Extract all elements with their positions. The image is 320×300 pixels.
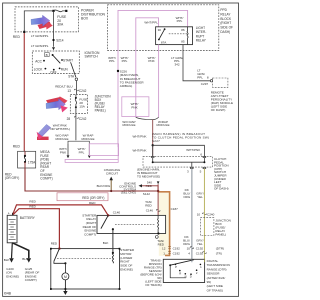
W/O RAP MODULE label (merge) <box>122 120 135 127</box>
charging circuit arrow <box>109 177 113 181</box>
DK BLU/ORG label 2 <box>183 235 191 246</box>
WHT/PNK label above merge <box>131 102 139 110</box>
svg-text:OFF: OFF <box>50 70 56 74</box>
interrupt relay box <box>156 27 193 45</box>
svg-text:PPL: PPL <box>177 19 183 23</box>
svg-text:RELAY: RELAY <box>196 39 207 43</box>
svg-text:PANEL): PANEL) <box>215 232 226 236</box>
svg-text:LT GRN/PPL: LT GRN/PPL <box>31 34 49 38</box>
STARTER RELAY label <box>82 213 97 236</box>
svg-text:BLK: BLK <box>103 241 109 245</box>
S227 splice note <box>152 132 209 143</box>
svg-text:RED (OR GRY): RED (OR GRY) <box>82 196 104 200</box>
junction dot PDB bottom <box>23 31 25 33</box>
svg-text:RED: RED <box>13 144 21 148</box>
svg-text:10: 10 <box>187 246 191 250</box>
svg-text:MODULE: MODULE <box>81 137 94 141</box>
wire: PDB feed L-run <box>24 11 53 32</box>
battery ground wire 2 <box>12 243 29 258</box>
motor M <box>62 273 69 280</box>
svg-text:C140: C140 <box>113 211 121 215</box>
pink highlight box lower <box>89 144 118 156</box>
wire GRY/YEL <box>203 169 205 259</box>
POWER DISTRIBUTION BOX label <box>81 8 105 20</box>
G100 label <box>6 267 19 279</box>
engine controls arrow <box>139 184 143 187</box>
node S214 <box>53 39 64 43</box>
svg-text:AIRBAG): AIRBAG) <box>120 84 133 88</box>
starter motor box <box>51 249 120 289</box>
svg-text:PPL: PPL <box>79 150 85 154</box>
WHT/PPL label <box>78 147 86 155</box>
W/ RAP MODULE label (left split) <box>81 133 94 141</box>
svg-text:S142: S142 <box>143 192 150 196</box>
svg-text:RED: RED <box>29 200 36 204</box>
ground G100 <box>9 258 14 262</box>
connector C297 <box>201 80 213 86</box>
starter relay actuator dashed <box>115 223 156 225</box>
S226 splice note <box>120 70 145 88</box>
svg-text:R: R <box>179 271 181 275</box>
svg-text:PNK: PNK <box>148 59 154 63</box>
arrow into ignition switch <box>52 47 55 50</box>
svg-text:C240: C240 <box>207 212 215 216</box>
motor feed dot <box>64 262 66 264</box>
starter relay contact <box>101 214 114 230</box>
svg-text:C242: C242 <box>79 117 87 121</box>
RED (OR GRY) boxed label <box>57 193 108 201</box>
split bracket <box>68 141 89 143</box>
solenoid coil <box>112 253 113 263</box>
pink highlight box upper <box>122 97 149 117</box>
TR sensor label <box>140 258 162 287</box>
svg-text:RUN: RUN <box>61 68 69 72</box>
svg-text:(S&L CNG): (S&L CNG) <box>121 190 136 194</box>
svg-text:D: D <box>190 274 192 278</box>
svg-text:86: 86 <box>181 28 185 32</box>
svg-text:STA: STA <box>68 75 75 79</box>
GRY/YEL label 2 <box>196 238 204 246</box>
MEGA FUSE (PDB) label <box>40 150 52 181</box>
svg-text:30A: 30A <box>57 23 64 27</box>
relay block dashed box <box>108 5 219 51</box>
wire 540 RED continuation stub <box>157 181 160 191</box>
540 RED label <box>146 180 153 188</box>
PPD RELAY BLOCK label <box>220 8 233 34</box>
svg-text:PNK: PNK <box>60 150 66 154</box>
coil return connector <box>155 236 158 239</box>
ENGINE CONTROLS SYSTEM label <box>119 181 136 194</box>
fuse 15A <box>75 94 77 113</box>
CPP jumper connectors top <box>151 156 206 158</box>
svg-text:C146: C146 <box>146 209 154 213</box>
CHARGING CIRCUIT label <box>104 168 121 176</box>
svg-text:1: 1 <box>163 251 165 255</box>
svg-text:C242: C242 <box>79 89 87 93</box>
motor ground <box>63 291 67 295</box>
wire below C242 <box>75 113 77 140</box>
svg-text:C192: C192 <box>173 251 181 255</box>
ignition switch box (dashed) <box>32 51 79 74</box>
svg-text:85: 85 <box>181 40 185 44</box>
connector 13 C242 <box>67 89 86 93</box>
connector ticks C192 <box>190 247 206 254</box>
arrow end WHT/PNK <box>67 155 70 158</box>
pink wire outer run <box>118 10 188 147</box>
LIGHT INTERRUPT RELAY label <box>196 26 207 43</box>
connector marks on TAN/RED at C192 <box>168 247 171 254</box>
svg-text:PPL: PPL <box>109 59 115 63</box>
W/RAP MODULE label (merge) <box>156 120 169 127</box>
node S227 <box>152 144 154 146</box>
svg-text:+: + <box>8 212 10 216</box>
orange highlight strip fill <box>159 192 170 256</box>
svg-text:START: START <box>63 59 73 63</box>
TAN/RED label bottom <box>157 239 165 247</box>
pink highlight strip <box>65 159 118 162</box>
JUNCTION BOX label 2 <box>215 218 230 236</box>
IGNITION SWITCH label <box>85 51 100 59</box>
node S142 <box>157 190 159 192</box>
orange highlight border <box>158 192 169 256</box>
connector 10 C240 <box>197 212 215 216</box>
ENGINE HARN breakout note <box>137 167 160 178</box>
svg-text:SWITCH: SWITCH <box>85 55 99 59</box>
svg-text:(OR GRY): (OR GRY) <box>5 176 19 180</box>
svg-text:WHT/PPL: WHT/PPL <box>144 21 158 25</box>
svg-text:TO MEGAFUSE): TO MEGAFUSE) <box>137 175 160 179</box>
starter solenoid contact <box>54 247 66 263</box>
svg-text:28: 28 <box>67 117 71 121</box>
svg-text:MODULE: MODULE <box>122 123 135 127</box>
TR sensor box <box>163 259 204 282</box>
svg-text:6: 6 <box>200 153 202 157</box>
border frame <box>3 3 239 296</box>
svg-text:RED/LT BLU: RED/LT BLU <box>55 84 72 88</box>
STA terminal <box>68 75 78 81</box>
wire WHT/PNK drop <box>67 144 69 156</box>
power distribution box (dashed) <box>15 7 79 32</box>
svg-text:MODULE: MODULE <box>156 123 169 127</box>
svg-text:COMPT): COMPT) <box>84 232 96 236</box>
FUSE 28 15A label <box>79 97 87 108</box>
svg-text:C187: C187 <box>171 207 179 211</box>
svg-text:PPL: PPL <box>197 75 203 79</box>
battery ground wire 1 <box>11 243 14 258</box>
svg-text:TO CLUTCH PEDAL POSITION SW): TO CLUTCH PEDAL POSITION SW) <box>152 135 209 139</box>
wire: mega fuse to B+ bus <box>25 168 158 191</box>
WHT/PPL label (wire 1) <box>108 56 116 63</box>
svg-text:M: M <box>64 275 67 279</box>
svg-text:C297: C297 <box>201 82 209 86</box>
relay internals <box>158 27 189 45</box>
svg-text:N: N <box>185 274 187 278</box>
svg-text:OF DASH): OF DASH) <box>211 108 226 112</box>
node S226 <box>117 70 119 72</box>
svg-text:RED: RED <box>13 35 21 39</box>
svg-text:COMPT): COMPT) <box>25 278 37 282</box>
svg-text:(TR): (TR) <box>216 251 222 255</box>
svg-text:342: 342 <box>174 63 179 67</box>
svg-text:WHT/PNK: WHT/PNK <box>186 148 200 152</box>
starter relay coil <box>158 215 159 233</box>
mega fuse box <box>18 151 36 168</box>
TR sensor internals <box>169 259 204 278</box>
LT GRN/PPL 8 label <box>197 69 209 80</box>
WHT/PPL label above pin 86 <box>176 16 184 23</box>
svg-text:PPD: PPD <box>220 8 227 12</box>
connector 28 C242 <box>67 117 87 122</box>
svg-text:C192: C192 <box>196 246 204 250</box>
connector C146 <box>146 207 178 213</box>
WHT/PNK label (wire 3) <box>148 56 156 63</box>
svg-text:S214: S214 <box>56 39 64 43</box>
wire WHT/PNK to CPP jumper pin 6 <box>153 145 205 156</box>
svg-text:4: 4 <box>188 251 190 255</box>
WHT/PNK OR WHT/PPL label <box>50 124 70 132</box>
STARTER MOTOR label <box>120 248 135 272</box>
CPP switch label <box>214 157 229 191</box>
RED (OR GRY) label left <box>5 172 19 180</box>
G125 label <box>25 267 40 282</box>
wire WHT/PPL drop <box>88 144 90 156</box>
svg-text:PANEL): PANEL) <box>95 108 106 112</box>
svg-text:RED: RED <box>29 205 36 209</box>
svg-text:S227: S227 <box>152 139 160 143</box>
junction box 2 (dashed) <box>200 218 214 236</box>
svg-text:BOX: BOX <box>81 16 89 20</box>
node BLK/ORG tap <box>110 190 112 192</box>
battery <box>7 212 17 243</box>
svg-text:ACC: ACC <box>35 60 42 64</box>
WHT/PNK label above S227 <box>132 134 146 138</box>
svg-text:LOCK: LOCK <box>34 68 43 72</box>
svg-text:12: 12 <box>162 246 166 250</box>
motor ground wire <box>64 280 66 291</box>
svg-text:RED: RED <box>89 201 96 205</box>
svg-text:(DTR): (DTR) <box>216 246 224 250</box>
arrow end WHT/PPL <box>88 155 91 158</box>
svg-text:CIRCUIT: CIRCUIT <box>106 171 118 175</box>
arrow icon 1 <box>31 15 53 29</box>
connector row 12 C192 / 10 C192 (DTR) <box>162 246 224 250</box>
svg-text:175A: 175A <box>28 161 36 165</box>
svg-text:YEL: YEL <box>197 195 203 199</box>
wire WHT/PNK into jumper <box>152 145 154 156</box>
WHT/PNK label below S227 <box>132 148 146 152</box>
solenoid coil terminal <box>112 252 114 254</box>
W/O RAP MODULE label (left split) <box>55 133 68 141</box>
ignition switch START-to-STA link <box>71 62 76 77</box>
wire BLK relay to motor <box>112 229 114 253</box>
starter relay box <box>97 215 166 233</box>
TAN/RED label <box>145 200 152 207</box>
ignition switch arm <box>53 55 61 63</box>
pink wire inner run <box>136 18 159 118</box>
svg-text:10: 10 <box>197 212 201 216</box>
svg-text:WHT/PNK: WHT/PNK <box>132 134 146 138</box>
svg-text:BATTERY: BATTERY <box>20 216 36 220</box>
svg-text:BLOCK: BLOCK <box>220 17 232 21</box>
svg-text:YEL: YEL <box>197 242 203 246</box>
wire: fuse output down to ignition switch <box>53 11 55 47</box>
pink riser <box>117 147 119 159</box>
svg-text:C192: C192 <box>173 246 181 250</box>
svg-text:OF TRANS): OF TRANS) <box>145 283 161 287</box>
svg-text:SIDE OF: SIDE OF <box>220 26 233 30</box>
svg-text:MODULE: MODULE <box>55 137 68 141</box>
CPP jumper internal wire <box>152 158 206 168</box>
wire TAN/RED to relay coil <box>157 191 159 215</box>
charging circuit BLK/ORG wire <box>110 180 112 191</box>
svg-text:PNK: PNK <box>131 106 137 110</box>
arrow icon 2 <box>46 96 68 112</box>
RAP module dashed box <box>213 78 228 87</box>
svg-text:BLK: BLK <box>4 258 10 262</box>
svg-text:WHT/PNK: WHT/PNK <box>132 148 146 152</box>
svg-text:30: 30 <box>158 28 162 32</box>
svg-text:5: 5 <box>200 170 202 174</box>
svg-text:(RIGHT: (RIGHT <box>220 21 231 25</box>
battery feed wire to starter motor <box>12 209 59 249</box>
svg-text:ENGINE): ENGINE) <box>120 268 133 272</box>
GRY/YEL label <box>196 191 204 199</box>
ignition switch contacts <box>43 59 63 71</box>
svg-text:8: 8 <box>207 75 209 79</box>
battery feed wire to starter relay <box>12 205 108 216</box>
merge hooks <box>136 117 159 119</box>
wire: RED vertical battery-to-PDB <box>23 33 25 151</box>
wire to motor <box>64 263 66 273</box>
svg-text:COMPT): COMPT) <box>40 177 52 181</box>
svg-text:C192: C192 <box>196 251 204 255</box>
starter solenoid actuator dashed <box>57 257 113 259</box>
JUNCTION BOX label <box>95 94 112 112</box>
arrow icon 3 <box>37 124 51 140</box>
motor box corner dots <box>50 248 120 290</box>
svg-text:RELAY: RELAY <box>220 12 231 16</box>
svg-text:3: 3 <box>187 170 189 174</box>
wire DK BLU/ORG <box>191 169 193 259</box>
svg-text:13: 13 <box>67 89 71 93</box>
svg-text:OF DASH): OF DASH) <box>214 187 229 191</box>
svg-text:DASH): DASH) <box>220 30 230 34</box>
svg-text:LT GRN/PPL: LT GRN/PPL <box>31 44 49 48</box>
svg-text:OF TRANS): OF TRANS) <box>207 288 223 292</box>
WHT/PNK label <box>59 147 67 155</box>
WHT/PPL label (wire 2) <box>121 56 129 63</box>
svg-text:ORG: ORG <box>183 195 191 199</box>
connector row 1 C192 / 4 C192 (TR) <box>163 251 222 255</box>
ground G125 <box>27 258 32 262</box>
svg-text:ORG: ORG <box>183 242 191 246</box>
ignition switch position labels <box>34 59 73 75</box>
junction box 1 (dashed) <box>70 94 87 113</box>
DK BLU/ORG label <box>183 188 191 199</box>
starter relay coil terminal <box>157 232 159 234</box>
svg-text:ENGINE): ENGINE) <box>6 274 19 278</box>
mega fuse element 175A <box>24 151 36 168</box>
svg-text:BLK/ORG: BLK/ORG <box>97 184 111 188</box>
CPP jumper dashed box <box>143 157 213 168</box>
wire 87A down (pink) <box>158 45 160 118</box>
CPP jumper connectors bottom <box>190 167 206 169</box>
svg-text:PPL: PPL <box>122 59 128 63</box>
wire: STA down to C242 <box>75 81 77 95</box>
wire 85 to RAP module <box>183 45 211 81</box>
FUSE 20 30A label <box>57 15 67 27</box>
svg-text:B: B <box>46 53 48 57</box>
RAP module label <box>211 91 233 113</box>
wire down to S227 <box>152 120 154 156</box>
svg-text:RED: RED <box>145 204 152 208</box>
svg-text:OR WHT/PPL): OR WHT/PPL) <box>50 127 70 131</box>
ignition switch terminal B <box>45 53 54 57</box>
svg-text:I04B: I04B <box>4 292 12 296</box>
LT GRN/PPL 342 label <box>171 56 183 67</box>
svg-text:BLK: BLK <box>22 257 28 261</box>
svg-text:P: P <box>175 265 177 269</box>
fuse F (FUSE 20 30A) <box>52 10 67 12</box>
wire to engine controls <box>142 186 158 191</box>
DTR sensor label <box>207 259 230 292</box>
svg-text:RED: RED <box>51 242 58 246</box>
